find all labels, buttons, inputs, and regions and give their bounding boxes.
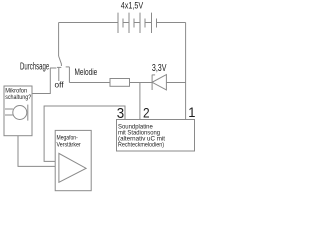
svg-text:2: 2	[143, 105, 150, 121]
svg-text:Rechteckmelodien): Rechteckmelodien)	[118, 142, 164, 149]
wire mic box to amplifier input	[18, 136, 55, 167]
op-amp A1 triangle	[59, 153, 86, 182]
resistor R1	[110, 79, 130, 87]
svg-text:3,3V: 3,3V	[152, 63, 167, 74]
wire Durchsage to microphone box	[32, 68, 50, 94]
svg-text:1: 1	[188, 104, 195, 120]
wire top rail left segment	[59, 22, 118, 24]
battery BT1 4x1,5V	[118, 13, 157, 33]
wire resistor to zener	[130, 82, 153, 84]
wire top rail right segment	[157, 22, 186, 24]
switch S1 lever	[59, 56, 62, 66]
svg-text:Melodie: Melodie	[75, 67, 98, 78]
wire right rail down to pin 1	[185, 23, 187, 120]
svg-text:off: off	[55, 80, 65, 90]
svg-text:Megafon-: Megafon-	[57, 134, 78, 141]
label Soundplatine mit Stadionsong (alternativ uC mit Rechteckmelodien)	[118, 123, 165, 148]
node junction to pin 2	[139, 83, 141, 120]
soundboard U2 Soundplatine	[117, 120, 195, 152]
svg-text:4x1,5V: 4x1,5V	[121, 1, 143, 11]
wire switch common drop	[58, 23, 60, 57]
switch S1 off contact	[57, 67, 61, 81]
label Mikrofon schaltung?	[5, 89, 32, 101]
amplifier box U3 Megafon-Verstaerker	[55, 130, 91, 190]
svg-text:Verstärker: Verstärker	[57, 142, 82, 149]
wire zener to right rail	[166, 82, 185, 84]
label Megafon-Verstärker	[57, 134, 82, 148]
wire Durchsage contact stub	[50, 67, 56, 69]
svg-text:Mikrofon: Mikrofon	[5, 89, 27, 95]
wire Melodie rail to resistor	[69, 82, 110, 84]
svg-text:Durchsage: Durchsage	[20, 61, 49, 72]
svg-text:schaltung?: schaltung?	[5, 95, 32, 101]
switch S1 Melodie contact	[66, 67, 70, 83]
microphone MK1 symbol	[5, 105, 28, 121]
zener diode D1 3,3V	[152, 75, 166, 90]
microphone box U1 Mikrofonschaltung	[4, 86, 32, 136]
wire pin 3 to amplifier input	[44, 106, 125, 161]
